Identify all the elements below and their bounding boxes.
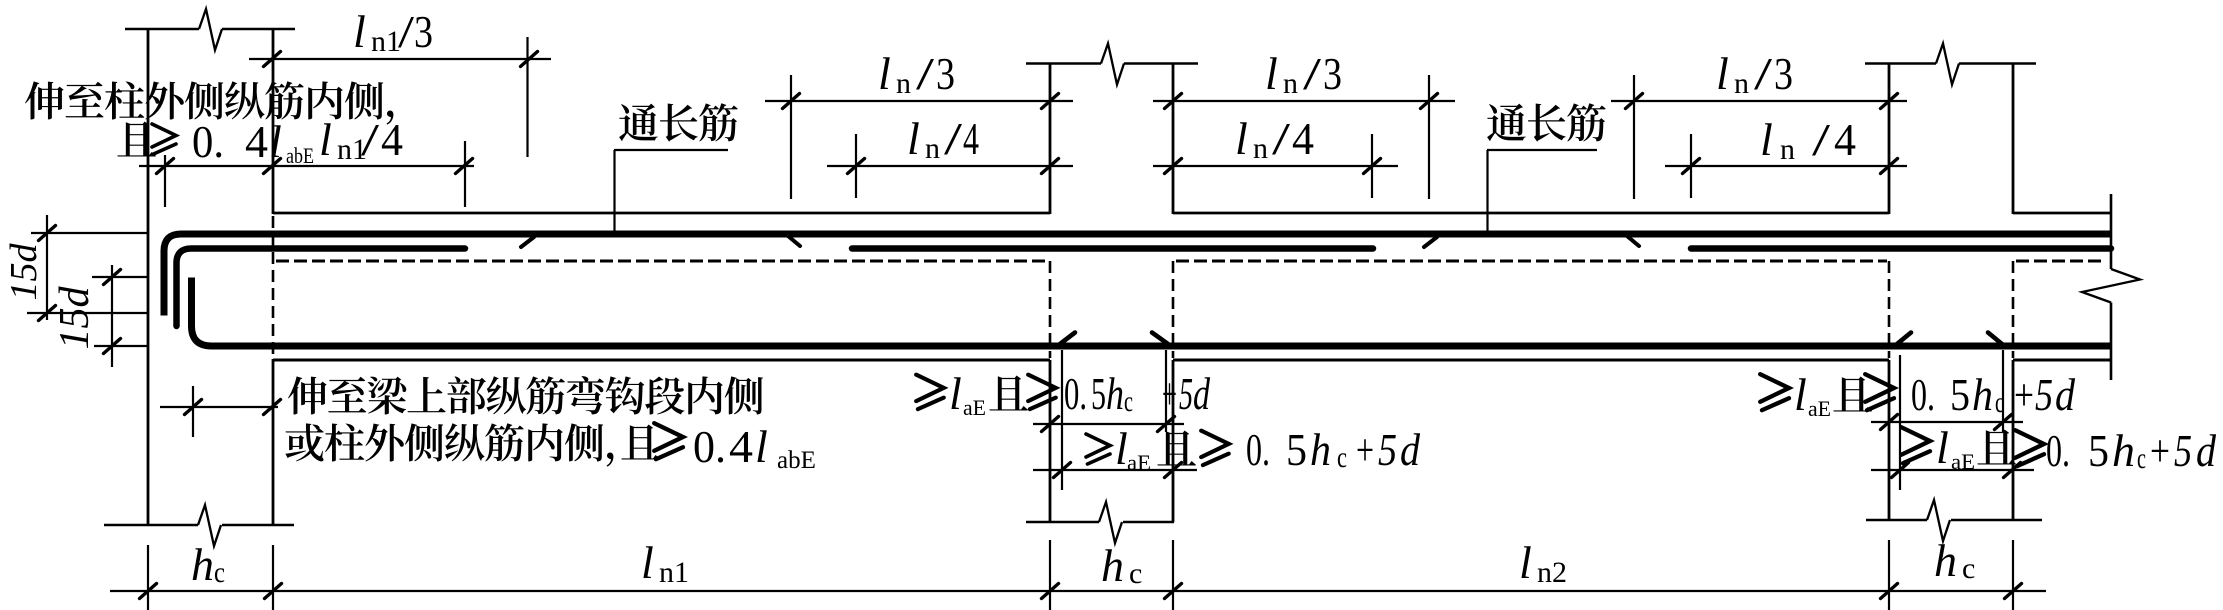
svg-text:15d: 15d bbox=[52, 286, 98, 350]
svg-text:aE: aE bbox=[1951, 449, 1975, 474]
svg-text:l: l bbox=[353, 6, 366, 57]
extension line right-span bottom bar end in column B bbox=[1061, 350, 1063, 490]
15d dim upper witness line (top bar) bbox=[31, 232, 149, 234]
second-row top bar at support A with 15d end hook bbox=[177, 249, 466, 327]
svg-text:l: l bbox=[878, 48, 891, 99]
svg-text:d: d bbox=[2196, 425, 2217, 476]
column B right edge line above beam bbox=[1172, 64, 1175, 215]
dashed line below top bars span 1 bbox=[276, 260, 1048, 263]
dim line first anchorage at column C (left span bottom bar) bbox=[1871, 421, 2023, 423]
beam top line span 2 bbox=[1173, 212, 1889, 215]
svg-text:5: 5 bbox=[1091, 368, 1106, 419]
extension line left-span bottom bar end in column B bbox=[1165, 350, 1167, 432]
column A inner edge dashed through beam bbox=[272, 216, 275, 359]
svg-text:n1: n1 bbox=[659, 556, 689, 589]
dashed line below top bars span 2 bbox=[1176, 260, 1887, 263]
column C bottom break zigzag bbox=[1927, 500, 1950, 541]
column C right edge dashed through beam bbox=[2012, 261, 2015, 358]
svg-text:/: / bbox=[1754, 48, 1772, 99]
label >= laE qie >= 0.5hc+5d at column C row1 bbox=[1760, 374, 1789, 410]
bottom bar anchorage hook in column C from left span bbox=[1988, 333, 2002, 345]
dim line second anchorage at column B (right span bottom bar) bbox=[1033, 469, 1197, 471]
note text: extend to inner side of hook of beam top bars line1 bbox=[288, 376, 327, 414]
svg-text:/: / bbox=[916, 48, 934, 99]
svg-text:0.: 0. bbox=[192, 116, 224, 167]
15d dim upper witness line (bottom bar hook end) bbox=[92, 276, 149, 278]
15d dim lower witness line (bottom bar) bbox=[94, 345, 147, 347]
beam right cut break zigzag bbox=[2082, 269, 2140, 303]
svg-text:n: n bbox=[896, 67, 911, 100]
svg-text:0.: 0. bbox=[1911, 369, 1935, 420]
svg-text:/: / bbox=[398, 6, 414, 57]
column A top cut line bbox=[125, 28, 199, 30]
leader drop line tongchangjin span1 bbox=[613, 150, 615, 231]
beam right cut line upper bbox=[2110, 194, 2113, 269]
extension line ln/3 span1 left end bbox=[790, 75, 792, 199]
svg-text:l: l bbox=[319, 114, 332, 165]
svg-text:d: d bbox=[1400, 424, 1421, 475]
svg-text:aE: aE bbox=[1127, 450, 1151, 475]
svg-text:abE: abE bbox=[777, 447, 816, 474]
svg-text:3: 3 bbox=[1774, 48, 1793, 99]
svg-text:0.: 0. bbox=[1246, 424, 1270, 475]
svg-text:d: d bbox=[1193, 368, 1211, 419]
extension line ln/4 span2-left right end bbox=[1371, 134, 1373, 198]
label >= laE qie >= 0.5hc+5d at column C row2 bbox=[1901, 427, 1930, 463]
svg-text:h: h bbox=[1310, 424, 1331, 475]
leader drop line tongchangjin span2 bbox=[1486, 150, 1488, 231]
extension line ln/4 span1 left end bbox=[855, 134, 857, 198]
bottom bar anchorage hook in column C from right span bbox=[1897, 333, 1911, 345]
first-row bar end 45deg tick span1 right bbox=[788, 236, 800, 246]
extension line at top bar hook bbox=[164, 155, 166, 207]
bottom extension lines column B bbox=[1049, 540, 1051, 610]
svg-text:/: / bbox=[1272, 113, 1290, 164]
svg-text:aE: aE bbox=[1808, 396, 1831, 421]
label >= laE qie >= 0.5hc+5d at column B row2 bbox=[1086, 434, 1110, 464]
svg-text:l: l bbox=[1794, 369, 1807, 420]
svg-text:l: l bbox=[1936, 422, 1949, 473]
column B left edge line below beam bbox=[1049, 360, 1052, 522]
label tongchangjin span1 bbox=[619, 104, 658, 142]
svg-text:5: 5 bbox=[1286, 424, 1307, 475]
leader underline tongchangjin span2 bbox=[1487, 149, 1597, 151]
svg-text:4: 4 bbox=[963, 113, 979, 164]
note text line2: qie >= 0.4 labE bbox=[117, 122, 156, 157]
column A (left) outer edge line bbox=[147, 29, 150, 525]
svg-text:/: / bbox=[944, 113, 962, 164]
second-row support bar over column C to cut end bbox=[1691, 245, 2111, 252]
column B top cut line bbox=[1026, 62, 1101, 64]
svg-text:+: + bbox=[2014, 369, 2034, 420]
svg-text:5: 5 bbox=[2035, 369, 2053, 420]
column A bottom cut line bbox=[104, 524, 198, 526]
svg-text:l: l bbox=[1115, 423, 1128, 474]
15d dim lower witness line (top bar hook end) bbox=[27, 312, 149, 314]
svg-text:c: c bbox=[1995, 386, 2004, 419]
label tongchangjin span2 bbox=[1487, 104, 1526, 142]
beam bottom line span 1 bbox=[273, 359, 1050, 362]
svg-text:4: 4 bbox=[1834, 114, 1856, 165]
column C left edge dashed through beam bbox=[1888, 261, 1891, 358]
column C left edge line below beam bbox=[1888, 360, 1891, 520]
svg-text:l: l bbox=[755, 421, 768, 472]
dim line ln/3 span2 right at column C bbox=[1611, 100, 1907, 102]
svg-text:c: c bbox=[1124, 385, 1133, 418]
column C bottom cut line bbox=[1866, 519, 1927, 521]
column B bottom break zigzag bbox=[1099, 502, 1122, 543]
column B right edge dashed through beam bbox=[1172, 261, 1175, 358]
bottom dimension line hc + ln1 + hc + ln2 + hc bbox=[110, 590, 2046, 592]
extension line right-span bottom bar end in column C bbox=[1899, 355, 1901, 490]
column C top break zigzag bbox=[1936, 44, 1959, 85]
column C right edge line above beam bbox=[2012, 64, 2015, 215]
beam top line right stub bbox=[2013, 212, 2111, 215]
leader underline tongchangjin span1 bbox=[614, 149, 728, 151]
first-row bar end 45deg tick span1 left bbox=[521, 237, 534, 247]
extension line ln/4 span2-right left end bbox=[1690, 134, 1692, 198]
svg-text:h: h bbox=[1934, 535, 1957, 586]
svg-text:3: 3 bbox=[936, 48, 955, 99]
svg-text:h: h bbox=[1972, 369, 1993, 420]
column A inner edge line lower part bbox=[272, 359, 275, 525]
svg-text:l: l bbox=[1519, 537, 1532, 588]
bottom extension lines column A bbox=[147, 545, 149, 610]
svg-text:l: l bbox=[949, 368, 962, 419]
column B top break zigzag bbox=[1101, 44, 1124, 85]
svg-text:/: / bbox=[1812, 114, 1830, 165]
first-row bar end 45deg tick span2 left bbox=[1424, 237, 1437, 247]
dim line 0.4labE plus ln1/4 at left support bbox=[139, 165, 474, 167]
beam top line span 1 bbox=[273, 212, 1050, 215]
column B (middle) left edge line above beam bbox=[1049, 64, 1052, 215]
column A bottom break zigzag bbox=[198, 505, 221, 546]
svg-text:5: 5 bbox=[1378, 424, 1397, 475]
svg-text:aE: aE bbox=[963, 395, 986, 420]
svg-text:l: l bbox=[907, 113, 920, 164]
note text: extend to inner side of column outer bars line1 bbox=[25, 81, 64, 119]
first-row bar end 45deg tick span2 right bbox=[1627, 236, 1639, 246]
svg-text:l: l bbox=[641, 537, 654, 588]
svg-text:4: 4 bbox=[729, 421, 753, 472]
svg-text:n2: n2 bbox=[1537, 556, 1567, 589]
15d dim line vertical (top bar hook) bbox=[46, 215, 48, 320]
dim line ln/4 span1 at column B bbox=[827, 165, 1073, 167]
svg-text:n: n bbox=[1253, 132, 1268, 165]
svg-text:n1: n1 bbox=[371, 25, 401, 58]
column A inner edge line upper part bbox=[272, 29, 275, 214]
svg-text:l: l bbox=[269, 116, 282, 167]
svg-text:n: n bbox=[925, 132, 940, 165]
extension line at bottom bar hook column A bbox=[192, 386, 194, 437]
svg-text:5: 5 bbox=[1179, 368, 1193, 419]
svg-text:4: 4 bbox=[1292, 113, 1314, 164]
svg-text:3: 3 bbox=[414, 6, 433, 57]
svg-text:h: h bbox=[2112, 425, 2135, 476]
svg-text:5: 5 bbox=[2174, 425, 2192, 476]
label >= laE qie >= 0.5hc+5d at column B row1 bbox=[916, 375, 944, 410]
svg-text:/: / bbox=[1303, 48, 1321, 99]
beam bottom line span 2 bbox=[1173, 359, 1889, 362]
extension line ln/3 span2-right left end bbox=[1633, 75, 1635, 199]
dim line first anchorage at column B (left span bottom bar) bbox=[1033, 423, 1184, 425]
svg-text:+: + bbox=[2150, 425, 2170, 476]
svg-text:l: l bbox=[1716, 48, 1729, 99]
svg-text:c: c bbox=[1129, 557, 1142, 590]
dim line second anchorage at column C (right span bottom bar) bbox=[1871, 469, 2034, 471]
svg-text:+: + bbox=[1162, 368, 1177, 419]
extension line for ln1/3 right end bbox=[526, 37, 528, 157]
bottom extension lines column C bbox=[1888, 540, 1890, 610]
svg-text:l: l bbox=[1760, 114, 1773, 165]
bottom bar with 15d up hook at left end bbox=[192, 278, 2112, 347]
column B right edge line below beam bbox=[1172, 360, 1175, 522]
svg-text:4: 4 bbox=[381, 114, 403, 165]
svg-text:4: 4 bbox=[245, 116, 268, 167]
column B bottom cut line bbox=[1026, 521, 1099, 523]
extension line for ln1/4 right end bbox=[464, 141, 466, 207]
svg-text:+: + bbox=[1356, 424, 1374, 475]
note text line2: or inner side of column outer bars, qie >= 0.4labE bbox=[285, 423, 323, 461]
svg-text:h: h bbox=[191, 539, 214, 590]
column C (right) left edge line above beam bbox=[1888, 64, 1891, 215]
svg-text:/: / bbox=[361, 114, 379, 165]
svg-text:5: 5 bbox=[1950, 369, 1970, 420]
column C right edge line below beam bbox=[2012, 360, 2015, 520]
fullwidth comma after note line1 bbox=[387, 111, 394, 125]
column B left edge dashed through beam bbox=[1049, 261, 1052, 358]
column C top cut line bbox=[1865, 62, 1936, 64]
svg-text:0.: 0. bbox=[2046, 425, 2070, 476]
dim line ln/4 span2 right at column C bbox=[1665, 165, 1907, 167]
15d dim line vertical (bottom bar hook) bbox=[111, 265, 113, 367]
second-row support bar over column B bbox=[852, 245, 1373, 252]
svg-text:3: 3 bbox=[1323, 48, 1342, 99]
extension line ln/3 span2-left right end bbox=[1428, 75, 1430, 199]
svg-text:c: c bbox=[214, 556, 225, 589]
svg-text:n: n bbox=[1780, 133, 1795, 166]
bottom bar anchorage hook in column B from right span bbox=[1060, 333, 1075, 345]
dashed line below top bars right stub bbox=[2016, 260, 2102, 263]
svg-text:l: l bbox=[1235, 113, 1248, 164]
svg-text:0.: 0. bbox=[1064, 368, 1087, 419]
svg-text:c: c bbox=[1962, 552, 1975, 585]
svg-text:h: h bbox=[1106, 368, 1124, 419]
dim line ln/4 span2 left at column B bbox=[1153, 165, 1398, 167]
dim line ln/3 span1 at column B bbox=[765, 100, 1073, 102]
svg-text:c: c bbox=[2137, 442, 2146, 475]
svg-text:d: d bbox=[2055, 369, 2076, 420]
dim line ln1/3 at left support bbox=[249, 58, 551, 60]
beam right cut line lower bbox=[2110, 303, 2113, 381]
dim line ln/3 span2 left at column B bbox=[1153, 100, 1455, 102]
svg-text:abE: abE bbox=[286, 143, 314, 168]
svg-text:l: l bbox=[1265, 48, 1278, 99]
svg-text:0.: 0. bbox=[693, 421, 726, 472]
column A top break zigzag bbox=[199, 9, 222, 50]
svg-text:n: n bbox=[1283, 67, 1298, 100]
svg-text:c: c bbox=[1337, 441, 1347, 474]
svg-text:h: h bbox=[1101, 540, 1124, 591]
bottom bar anchorage hook in column B from left span bbox=[1152, 333, 1168, 345]
svg-text:15d: 15d bbox=[3, 243, 45, 301]
beam bottom line right stub bbox=[2013, 359, 2111, 362]
svg-text:5: 5 bbox=[2088, 425, 2109, 476]
extension line left-span bottom bar end in column C bbox=[2002, 350, 2004, 432]
svg-text:n: n bbox=[1734, 67, 1749, 100]
dim line bottom bar anchorage at column A bbox=[160, 406, 278, 408]
top through bar (tongchangjin) with 15d end hook bbox=[164, 234, 2111, 316]
